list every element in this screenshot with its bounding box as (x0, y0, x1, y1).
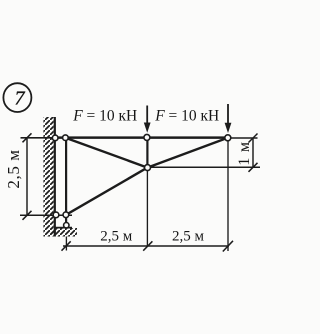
svg-text:F = 10 кН: F = 10 кН (72, 108, 137, 125)
svg-text:2,5 м: 2,5 м (100, 229, 133, 245)
svg-text:7: 7 (15, 88, 26, 110)
svg-text:F = 10 кН: F = 10 кН (154, 108, 219, 125)
svg-text:2,5 м: 2,5 м (172, 229, 205, 245)
svg-text:1 м: 1 м (236, 141, 253, 166)
svg-text:2,5 м: 2,5 м (4, 149, 23, 188)
